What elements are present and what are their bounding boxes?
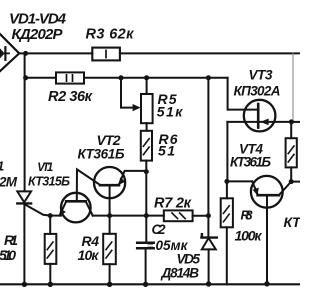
thyristor VS1 (КУ202М, labels cut at edge)	[17, 191, 31, 202]
resistor R9	[290, 122, 292, 138]
resistor R7 2к	[164, 210, 193, 221]
svg-text:VT1: VT1	[37, 162, 53, 174]
resistor R3 62к	[92, 48, 120, 61]
wire R5 top lead	[146, 78, 148, 94]
node junction C2 / R6 line	[144, 213, 149, 218]
svg-text:КТ361Б: КТ361Б	[230, 154, 271, 169]
transistor VT2 КТ361Б	[94, 167, 125, 198]
wire VT3 source row	[227, 121, 291, 123]
node junction at bridge output	[23, 51, 28, 56]
svg-text:R1: R1	[4, 232, 18, 248]
node junctions on bottom bus	[22, 282, 27, 287]
node junction R7/VD5	[206, 213, 211, 218]
wire R2 row	[26, 77, 56, 79]
diode bridge VD1-VD4 (right corner, cut at left edge)	[0, 34, 19, 71]
svg-text:VТ3: VТ3	[249, 68, 273, 83]
svg-text:КТ361Б: КТ361Б	[78, 147, 125, 162]
svg-text:1: 1	[0, 159, 4, 174]
svg-text:C2: C2	[152, 222, 166, 237]
resistor R5 51к (variable)	[141, 94, 153, 123]
svg-text:Д814В: Д814В	[161, 265, 200, 280]
svg-text:КД202Р: КД202Р	[12, 26, 64, 43]
svg-text:51: 51	[158, 143, 175, 159]
transistor VT3 КП302А (FET)	[244, 100, 276, 132]
diode inside bridge arm	[0, 52, 9, 54]
wire VT4 emitter row	[227, 180, 252, 182]
svg-text:R8: R8	[241, 208, 254, 223]
svg-text:100к: 100к	[235, 228, 263, 244]
capacitor C2 0,5мк	[137, 241, 154, 244]
resistor R6 51	[141, 131, 152, 161]
wire VT4 emitter riser	[226, 122, 228, 181]
resistor R1 510	[49, 216, 51, 234]
wire left vertical (thyristor anode line)	[24, 53, 26, 191]
svg-text:51к: 51к	[157, 103, 183, 119]
node junction R6/VT2 emitter	[144, 169, 149, 174]
wire R6 node down to C2	[145, 172, 147, 243]
svg-text:R3 62к: R3 62к	[86, 27, 135, 43]
svg-text:КТ315Б: КТ315Б	[28, 175, 70, 189]
transistor VT4 КТ361Б	[251, 176, 283, 208]
svg-text:2М: 2М	[0, 175, 18, 190]
svg-text:КТ: КТ	[284, 214, 301, 230]
node junction VT2 base / R4	[107, 213, 112, 218]
wire bottom bus	[0, 283, 300, 285]
svg-text:VT2: VT2	[97, 132, 121, 148]
wire R6 bottom lead	[145, 161, 147, 172]
node junction VD5 top	[206, 75, 211, 80]
wire VT3 gate bend	[228, 78, 259, 110]
node junction VT4 emitter / R8	[224, 179, 229, 184]
resistor R2 36к	[56, 72, 84, 83]
node junction R5 top	[144, 75, 149, 80]
svg-text:10к: 10к	[78, 247, 100, 263]
svg-text:КП302А: КП302А	[234, 83, 281, 98]
resistor R8 100к	[226, 181, 228, 198]
wire thyristor gate lead	[25, 205, 50, 216]
node junction wiper tap	[119, 75, 124, 80]
wire VD5 column	[207, 78, 209, 238]
node junction R2 wire	[23, 75, 28, 80]
wire R5-R6	[146, 123, 148, 131]
node junction VT3 source/R9	[289, 119, 294, 124]
transistor VT1 КТ315Б	[61, 193, 91, 223]
wire R5 wiper	[121, 78, 133, 108]
C2 value prefix dashes	[148, 244, 154, 248]
svg-text:R2 36к: R2 36к	[48, 89, 93, 105]
svg-text:VD5: VD5	[177, 252, 201, 267]
node junction R9/VT4 collector	[289, 179, 294, 184]
svg-text:510: 510	[0, 247, 16, 263]
wire VT1 collector to VT2 base row	[93, 215, 164, 217]
svg-text:R7 2к: R7 2к	[154, 195, 192, 211]
wire thyristor cathode down	[23, 203, 25, 284]
node junction gate/R1	[48, 213, 53, 218]
zener diode VD5 Д814В	[201, 234, 216, 237]
resistor R4 10к	[109, 216, 111, 234]
wire R7 right lead	[193, 215, 209, 217]
wire faint rail drop to VT3 source node	[292, 53, 294, 122]
wire VT1 emitter row	[50, 215, 61, 217]
wire top rail	[19, 52, 300, 54]
